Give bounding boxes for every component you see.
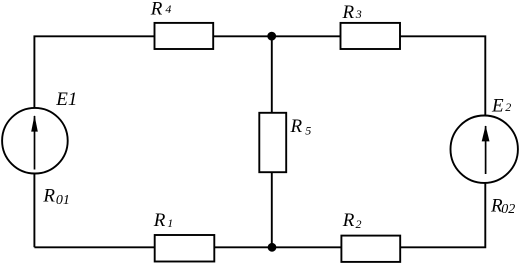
- svg-text:01: 01: [56, 193, 70, 208]
- label R1: [153, 210, 173, 231]
- label R5: [290, 116, 312, 137]
- svg-text:02: 02: [501, 202, 515, 217]
- source E1 circle: [2, 108, 68, 174]
- svg-text:5: 5: [305, 123, 311, 137]
- svg-text:R: R: [342, 210, 355, 231]
- svg-text:1: 1: [167, 216, 173, 230]
- label R01: [42, 186, 70, 209]
- source E2 arrow: [482, 125, 490, 174]
- source E2 circle: [451, 116, 518, 183]
- resistor R2: [341, 236, 400, 262]
- label R2: [342, 210, 362, 231]
- svg-text:R: R: [153, 210, 166, 231]
- svg-text:R: R: [42, 186, 55, 207]
- wire middle lower vertical: [271, 172, 273, 247]
- svg-text:R: R: [150, 0, 163, 19]
- label R4: [150, 0, 172, 19]
- resistor R1: [155, 235, 215, 262]
- wire bottom right: [400, 183, 485, 248]
- wire bottom left: [34, 246, 154, 248]
- svg-text:3: 3: [355, 7, 362, 21]
- resistor R5: [259, 113, 286, 172]
- wire left lower vertical: [33, 173, 35, 247]
- wire middle upper vertical: [271, 36, 273, 113]
- node junction top: [267, 32, 276, 41]
- svg-text:2: 2: [505, 100, 511, 114]
- wire top left horizontal: [34, 36, 154, 108]
- svg-text:E: E: [491, 95, 504, 116]
- svg-text:2: 2: [356, 217, 362, 231]
- wire bottom middle: [214, 246, 341, 248]
- label E2: [491, 95, 511, 116]
- label R02: [490, 195, 515, 217]
- wire top middle: [213, 35, 340, 37]
- resistor R4: [155, 23, 214, 49]
- svg-text:R: R: [290, 116, 303, 137]
- resistor R3: [341, 23, 401, 49]
- wire top right: [400, 36, 485, 115]
- label R3: [342, 2, 362, 23]
- node junction bottom: [268, 243, 277, 252]
- source E1 arrow: [31, 115, 38, 170]
- svg-text:E1: E1: [55, 89, 77, 110]
- svg-text:4: 4: [165, 2, 171, 16]
- svg-text:R: R: [342, 2, 355, 23]
